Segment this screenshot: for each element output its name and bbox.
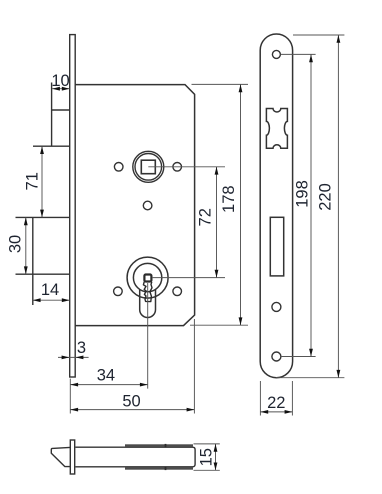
dimension 10 [52,88,70,90]
dimension 30 [25,217,27,274]
svg-text:72: 72 [197,208,215,226]
strike faceplate (right view) [260,34,292,378]
latch bolt (front view) [33,83,70,147]
dimension 71 [41,146,43,217]
svg-text:198: 198 [294,180,312,208]
svg-text:178: 178 [220,185,238,213]
deadbolt rectangular cutout [270,217,283,276]
svg-text:3: 3 [77,339,86,357]
dimension 220 [276,35,344,378]
plate middle screw hole [272,302,281,311]
hole below follower [143,201,152,210]
svg-text:71: 71 [24,172,42,190]
dimension 198 [281,54,316,356]
lock case body [75,85,194,326]
dimension 14 [33,299,70,301]
svg-text:22: 22 [267,394,285,412]
svg-text:50: 50 [122,393,140,411]
hole right of follower [173,163,182,172]
lock case (bottom view) [75,447,195,467]
euro cylinder hole [127,257,168,317]
dimension 15 [194,444,220,470]
hole right of cylinder [173,287,182,296]
dimension 22 [260,381,292,416]
key profile inside cylinder [144,275,151,282]
latch bolt (bottom view) [51,447,70,466]
dimension 72 [148,167,225,278]
cover plate edges (bottom view) [125,444,193,470]
svg-text:15: 15 [198,448,216,466]
hole left of follower [114,163,123,172]
spindle follower U-square [133,151,164,182]
faceplate (front view) [70,35,76,377]
follower cross cutout [266,109,287,149]
dimension 34 [70,283,147,414]
plate top screw hole [272,50,280,58]
svg-text:220: 220 [317,183,335,211]
dimension 178 [190,84,248,325]
faceplate (bottom view) [70,440,74,474]
deadbolt (front view) [16,217,71,305]
plate bottom screw hole [272,352,281,361]
svg-text:14: 14 [41,281,59,299]
svg-text:10: 10 [51,72,69,90]
hole left of cylinder [114,287,123,296]
svg-text:30: 30 [7,235,25,253]
dimension 3 (faceplate thickness) [58,356,89,358]
svg-text:34: 34 [97,367,115,385]
dimension 50 [70,319,194,414]
